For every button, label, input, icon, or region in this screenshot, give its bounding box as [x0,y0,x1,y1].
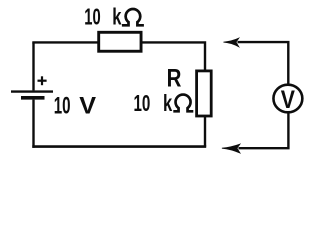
svg-text:V: V [281,85,296,113]
arrowhead bottom (points left) [222,144,240,153]
arrowhead top (points left) [223,38,238,47]
wire top-left segment [34,41,99,42]
wire left lower (battery bottom lead) [32,100,34,148]
svg-text:V: V [79,93,96,119]
wire voltmeter top lead [238,42,289,84]
wire right lower (R bottom lead) [204,117,206,147]
wire top-right segment [141,42,205,70]
battery plus sign [38,76,47,85]
wire voltmeter bottom lead [239,113,289,148]
wire bottom [32,145,206,148]
svg-text:R: R [167,64,182,92]
resistor R 10k box (right) [197,71,212,116]
svg-text:k: k [112,5,122,30]
battery B1 short plate [21,96,45,100]
label ohm (right resistor unit) [173,95,193,112]
svg-text:10: 10 [134,91,151,117]
wire left upper (battery top lead) [32,42,34,90]
voltmeter U1 circle [273,85,302,113]
battery B1 long plate [11,90,53,92]
resistor R1 10k box (top) [99,32,141,51]
svg-text:10: 10 [54,93,71,119]
svg-text:k: k [163,91,173,116]
svg-text:10: 10 [84,5,100,30]
label ohm (top resistor unit) [122,9,144,25]
